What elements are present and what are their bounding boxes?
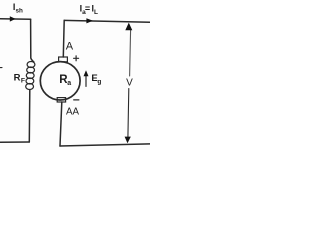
arrowhead Ia	[86, 18, 93, 23]
svg-text:g: g	[97, 79, 101, 86]
wire bottom-right horizontal	[60, 144, 150, 146]
svg-text:=: =	[85, 4, 90, 14]
svg-text:V: V	[126, 77, 133, 88]
arrowhead V top	[125, 23, 132, 31]
svg-text:F: F	[21, 77, 25, 84]
stray mark left edge	[0, 67, 2, 69]
wire left vertical lower	[28, 90, 31, 142]
svg-text:a: a	[67, 80, 71, 87]
svg-text:R: R	[14, 73, 21, 84]
svg-text:L: L	[94, 9, 98, 16]
label Eg	[91, 73, 101, 86]
minus sign	[74, 99, 79, 101]
wire left vertical upper	[31, 19, 34, 62]
brush AA rect	[57, 98, 65, 102]
label Ish	[13, 2, 23, 14]
armature circle Ra	[40, 62, 80, 100]
wire bottom-left horizontal	[0, 141, 29, 143]
plus sign	[74, 56, 79, 61]
wire armature top horizontal	[64, 20, 150, 22]
voltage arrow V upper shaft	[130, 30, 131, 77]
wire armature vertical lower	[60, 102, 62, 146]
label Ia = IL	[80, 4, 98, 17]
arrowhead Ish	[10, 16, 16, 21]
voltage arrow V lower shaft	[127, 89, 130, 139]
label Ra	[59, 74, 71, 87]
wire armature vertical upper	[62, 20, 65, 57]
svg-text:A: A	[66, 41, 74, 53]
arrowhead V bottom	[125, 137, 131, 144]
arrow Eg	[85, 76, 87, 87]
inductor RF coil	[26, 62, 35, 90]
wire top-left horizontal	[0, 18, 31, 21]
brush A rect	[59, 57, 68, 62]
svg-text:AA: AA	[66, 105, 79, 117]
label RF	[14, 73, 25, 85]
svg-text:sh: sh	[16, 7, 24, 14]
